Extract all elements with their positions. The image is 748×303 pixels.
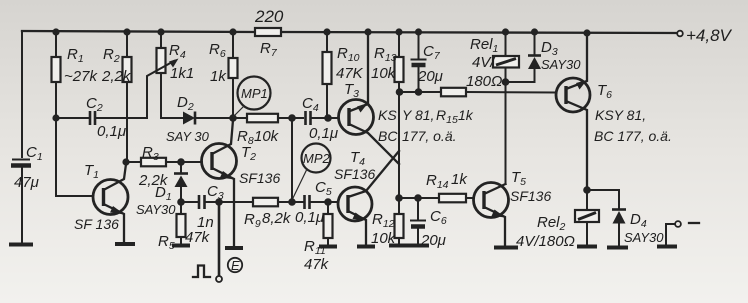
svg-text:E: E [231, 258, 240, 273]
svg-text:Y 81,: Y 81, [402, 107, 434, 123]
svg-text:0,1μ: 0,1μ [309, 125, 338, 142]
svg-text:10k: 10k [371, 230, 397, 247]
svg-text:KSY 81,: KSY 81, [595, 107, 646, 123]
svg-text:20μ: 20μ [417, 68, 443, 85]
svg-text:2,2k: 2,2k [101, 68, 132, 85]
svg-text:MP1: MP1 [241, 86, 268, 101]
svg-text:0,1μ: 0,1μ [97, 123, 126, 140]
svg-text:MP2: MP2 [303, 151, 331, 166]
svg-text:SAY30: SAY30 [541, 57, 581, 72]
svg-text:0,1μ: 0,1μ [295, 209, 324, 226]
svg-text:47k: 47k [185, 229, 211, 246]
svg-text:~27k: ~27k [64, 68, 98, 85]
svg-text:10k: 10k [254, 128, 280, 145]
svg-text:SAY30: SAY30 [136, 202, 176, 217]
svg-text:220: 220 [254, 7, 284, 26]
svg-text:47K: 47K [336, 65, 364, 82]
svg-text:1n: 1n [197, 214, 214, 231]
svg-text:4V/180Ω: 4V/180Ω [516, 233, 575, 250]
svg-text:SF136: SF136 [510, 188, 551, 204]
svg-text:1k: 1k [451, 171, 468, 188]
svg-text:1k: 1k [458, 107, 474, 123]
svg-text:10k: 10k [371, 65, 397, 82]
svg-text:8,2k: 8,2k [262, 210, 292, 227]
svg-text:SF136: SF136 [239, 170, 280, 186]
svg-text:20μ: 20μ [420, 232, 446, 249]
svg-text:1k1: 1k1 [170, 65, 194, 82]
svg-text:47k: 47k [304, 256, 330, 273]
svg-text:SF136: SF136 [334, 166, 375, 182]
svg-text:BC: BC [378, 128, 398, 144]
svg-text:BC 177, o.ä.: BC 177, o.ä. [594, 128, 672, 144]
svg-text:SAY 30: SAY 30 [166, 129, 210, 144]
svg-text:47μ: 47μ [14, 174, 39, 191]
svg-text:SF 136: SF 136 [74, 216, 119, 232]
svg-text:180Ω: 180Ω [466, 73, 502, 90]
svg-text:1k: 1k [210, 68, 227, 85]
svg-text:KS: KS [378, 107, 397, 123]
svg-text:4V/: 4V/ [472, 54, 496, 71]
svg-text:+4,8V: +4,8V [686, 26, 733, 45]
svg-text:177, o.ä.: 177, o.ä. [402, 128, 457, 144]
svg-text:SAY30: SAY30 [624, 230, 664, 245]
